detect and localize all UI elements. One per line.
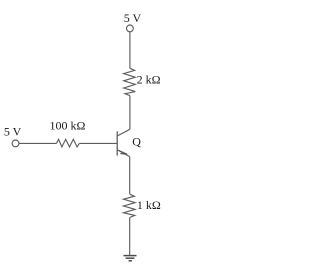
terminal VIN	[12, 140, 19, 147]
ground	[124, 256, 137, 261]
wire emitter to R3	[129, 157, 131, 195]
wire VCC to R1	[129, 32, 131, 69]
resistor R1 2 kOhm	[124, 68, 136, 95]
svg-text:5 V: 5 V	[124, 11, 142, 25]
svg-text:5 V: 5 V	[4, 124, 22, 138]
terminal VCC	[126, 25, 133, 32]
transistor Q collector lead	[117, 129, 130, 136]
wire R2 to base	[79, 142, 116, 144]
wire R3 to ground	[129, 218, 131, 256]
svg-text:1 kΩ: 1 kΩ	[137, 198, 161, 212]
transistor Q emitter arrow	[119, 150, 128, 154]
resistor R3 1 kOhm	[124, 194, 136, 217]
resistor R2 100 kOhm	[57, 139, 80, 147]
svg-text:2 kΩ: 2 kΩ	[137, 73, 161, 87]
svg-text:Q: Q	[132, 134, 141, 148]
transistor Q emitter lead	[117, 150, 130, 157]
wire VIN to R2	[19, 142, 57, 144]
transistor Q base bar	[116, 131, 118, 155]
svg-text:100 kΩ: 100 kΩ	[50, 118, 86, 132]
wire R1 to collector	[129, 96, 131, 130]
